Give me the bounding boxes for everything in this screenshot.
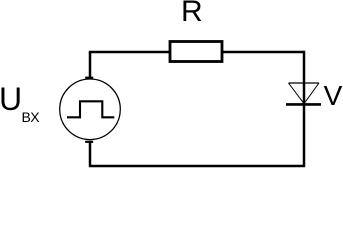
wire top stub from source to top rail	[85, 52, 93, 78]
wire bottom stub from source to bottom rail	[85, 141, 93, 165]
resistor R1 body	[170, 42, 222, 62]
label R	[181, 0, 203, 29]
voltage source U1 circle	[60, 79, 121, 140]
pulse waveform symbol inside source	[67, 101, 114, 117]
wire right vertical	[303, 51, 306, 166]
wire bottom rail	[89, 165, 305, 168]
label U	[0, 81, 22, 118]
diode V anode triangle	[289, 83, 320, 103]
diode V cathode bar	[286, 103, 321, 106]
wire top rail	[89, 51, 304, 54]
label V	[324, 80, 343, 112]
label BX subscript	[22, 109, 40, 125]
